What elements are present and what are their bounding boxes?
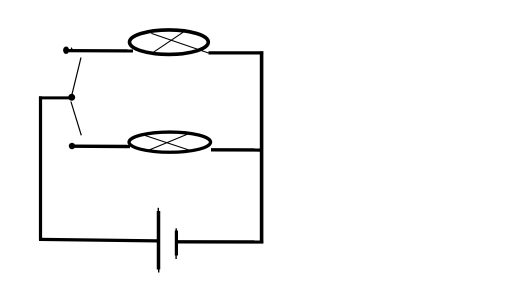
lamp L2 (bottom) ellipse: [129, 132, 211, 152]
lamp L1 cross line 1: [151, 33, 208, 53]
lamp L2 cross line 2: [149, 134, 187, 150]
battery BT1 long plate bottom tip: [158, 269, 160, 273]
wire bottom left to battery: [39, 239, 158, 241]
wire lamp L2 to right rail: [211, 148, 261, 152]
node bottom throw contact: [69, 143, 75, 149]
node switch pole: [68, 94, 75, 101]
lamp L1 (top) ellipse: [130, 30, 209, 55]
wire right rail vertical: [260, 51, 264, 243]
node top throw contact: [63, 47, 69, 54]
wire lamp L1 to right rail: [209, 51, 264, 54]
wire bottom contact to lamp L2: [72, 144, 130, 148]
lamp L2 cross line 1: [144, 135, 189, 150]
battery BT1 short plate bottom tip: [175, 255, 177, 259]
lamp L1 cross line 2: [152, 31, 185, 53]
battery BT1 short plate: [175, 231, 178, 256]
wire switch pole: [39, 96, 72, 99]
wire left rail vertical: [39, 96, 42, 239]
battery BT1 long plate top tip: [157, 208, 159, 212]
battery BT1 long plate: [157, 211, 161, 270]
battery BT1 short plate top tip: [175, 228, 177, 231]
switch S1 lever lower: [71, 102, 81, 136]
wire top contact to lamp L1: [64, 49, 133, 53]
wire battery to right rail: [178, 240, 263, 243]
switch S1 lever upper: [72, 58, 81, 96]
pen tick on top wire: [70, 48, 73, 50]
